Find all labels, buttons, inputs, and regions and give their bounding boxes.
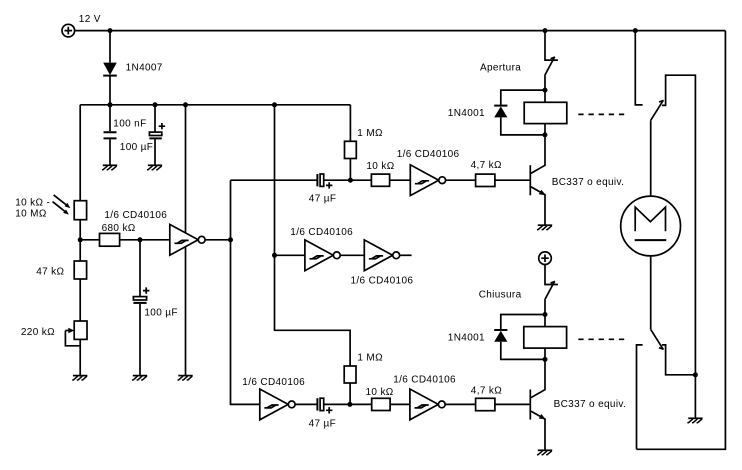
node A sensor bbox=[78, 237, 83, 242]
svg-text:1/6 CD40106: 1/6 CD40106 bbox=[351, 275, 414, 286]
ground under C2 bbox=[147, 165, 162, 170]
svg-text:10 kΩ -: 10 kΩ - bbox=[15, 197, 50, 208]
wire inv6 output stub bbox=[400, 254, 412, 256]
node H relay2 bottom bbox=[543, 357, 548, 362]
wire diode branch upper bbox=[501, 90, 545, 105]
ground right rail bbox=[687, 418, 702, 423]
wire switch1 to node E bbox=[544, 76, 546, 91]
svg-text:100 µF: 100 µF bbox=[120, 142, 153, 153]
resistor R5 1M upper bbox=[345, 141, 357, 158]
wire inv5 out to inv6 bbox=[340, 254, 364, 256]
LDR arrow 2 bbox=[53, 202, 69, 215]
wire D2 to node F bbox=[501, 117, 545, 134]
node B cap C3 bbox=[138, 237, 143, 242]
ground under C3 bbox=[132, 376, 147, 381]
wire node B down to C3 bbox=[139, 240, 141, 297]
resistor R4 680k bbox=[100, 233, 120, 246]
resistor R2 47k bbox=[74, 261, 86, 279]
svg-text:1/6 CD40106: 1/6 CD40106 bbox=[242, 377, 305, 388]
ground drop1 bbox=[178, 376, 193, 381]
wire diode to filter bus bbox=[109, 76, 111, 105]
resistor R6 10k upper bbox=[371, 174, 389, 186]
wire drop2 to 1M pullup lower bbox=[275, 105, 351, 366]
svg-text:10 MΩ: 10 MΩ bbox=[15, 209, 47, 220]
wire changeover lower contact B bbox=[662, 345, 696, 375]
terminal + Chiusura bbox=[539, 252, 552, 265]
wire pot to ground bbox=[79, 339, 81, 375]
wire K1 to node F bbox=[544, 124, 546, 135]
node ground rail bbox=[693, 372, 698, 377]
wire motor bottom to blade lower bbox=[650, 256, 652, 330]
svg-text:4,7 kΩ: 4,7 kΩ bbox=[471, 386, 502, 397]
wire R6 to INV2 bbox=[390, 179, 411, 181]
wire node D to R6 bbox=[350, 179, 371, 181]
wire node A to R2 bbox=[79, 240, 81, 261]
svg-text:1N4007: 1N4007 bbox=[126, 62, 163, 73]
capacitor C1 100 nF bbox=[104, 105, 117, 165]
svg-text:BC337 o equiv.: BC337 o equiv. bbox=[552, 177, 625, 188]
wire top bus bbox=[75, 30, 726, 32]
terminal +12V bbox=[62, 24, 75, 37]
wire node inv5 input bbox=[275, 254, 305, 256]
wire node E to relay K1 bbox=[544, 90, 546, 102]
op-amp U1F inverter 1/6 CD40106 bbox=[410, 389, 445, 420]
resistor R10 4.7k lower bbox=[476, 398, 495, 410]
wire node C riser bbox=[231, 180, 260, 404]
svg-text:1/6 CD40106: 1/6 CD40106 bbox=[290, 227, 353, 238]
switch blade changeover lower bbox=[651, 329, 664, 349]
wire diode branch lower bbox=[501, 315, 545, 330]
node bus-C2 bbox=[153, 102, 158, 107]
wire left drop to LDR bbox=[79, 105, 81, 201]
wire R5 to node D bbox=[349, 159, 351, 181]
svg-text:1N4001: 1N4001 bbox=[448, 108, 485, 119]
node G relay2 top bbox=[543, 312, 548, 317]
capacitor C4 47 uF bbox=[317, 174, 350, 189]
op-amp U1D inverter 1/6 CD40106 unused pair out bbox=[364, 240, 399, 271]
wire right rail bbox=[637, 31, 726, 450]
svg-text:4,7 kΩ: 4,7 kΩ bbox=[471, 160, 502, 171]
resistor R8 1M lower bbox=[344, 366, 356, 383]
switch Apertura blade bbox=[545, 57, 555, 75]
node F relay1 bottom bbox=[543, 132, 548, 137]
diode D2 1N4001 bbox=[494, 106, 507, 118]
wire K2 to node H bbox=[544, 348, 546, 359]
wire node A to R4 bbox=[80, 239, 99, 241]
transistor Q2 BC337 bbox=[530, 359, 546, 449]
wire changeover upper contact B bbox=[662, 75, 696, 375]
wire LDR to node A bbox=[79, 220, 81, 240]
op-amp U1A inverter 1/6 CD40106 bbox=[170, 224, 205, 255]
svg-text:BC337 o equiv.: BC337 o equiv. bbox=[554, 399, 627, 410]
wire switch2 to node G bbox=[544, 300, 546, 315]
switch blade changeover upper bbox=[651, 100, 664, 120]
svg-text:680 kΩ: 680 kΩ bbox=[102, 223, 136, 234]
motor M1 bbox=[621, 196, 681, 256]
node E relay1 top bbox=[543, 88, 548, 93]
ground under C1 bbox=[102, 165, 117, 170]
wire INV2 out to R7 bbox=[446, 179, 476, 181]
transistor Q1 BC337 bbox=[530, 135, 546, 225]
capacitor C2 100 uF bbox=[149, 105, 165, 165]
svg-text:1/6 CD40106: 1/6 CD40106 bbox=[104, 210, 167, 221]
wire INV1 out to node C bbox=[205, 239, 230, 241]
wire R7 to Q1 base bbox=[495, 179, 530, 181]
wire bus to switch1 bbox=[545, 31, 558, 60]
svg-text:1 MΩ: 1 MΩ bbox=[357, 128, 383, 139]
relay K1 coil bbox=[524, 102, 567, 123]
wire ground rail bbox=[694, 375, 696, 418]
wire bus corner into R5 bbox=[349, 105, 351, 142]
wire R8 to node I bbox=[349, 383, 351, 404]
mechanical link lower dashed bbox=[578, 338, 624, 340]
svg-text:100 nF: 100 nF bbox=[113, 119, 146, 130]
node inv5 input bbox=[272, 253, 277, 258]
diode D1 1N4007 bbox=[103, 63, 117, 76]
node C inv1 output bbox=[228, 237, 233, 242]
node D timing upper bbox=[348, 178, 353, 183]
wire 12V to diode bbox=[109, 31, 111, 63]
svg-text:Chiusura: Chiusura bbox=[479, 290, 522, 301]
resistor R7 4.7k upper bbox=[476, 174, 495, 186]
switch Chiusura blade bbox=[545, 282, 555, 300]
wire R2 to pot bbox=[79, 279, 81, 321]
diode D3 1N4001 bbox=[494, 330, 507, 342]
relay K2 coil bbox=[524, 327, 567, 349]
LDR R1 bbox=[74, 201, 86, 220]
op-amp U1C inverter 1/6 CD40106 unused pair in bbox=[305, 240, 340, 271]
wire drop1 to ground bbox=[185, 105, 187, 375]
wire changeover upper contact A bbox=[635, 31, 642, 105]
wire INV4 out to R10 bbox=[445, 403, 475, 405]
svg-text:1/6 CD40106: 1/6 CD40106 bbox=[393, 375, 456, 386]
wire R10 to Q2 base bbox=[495, 403, 530, 405]
svg-text:10 kΩ: 10 kΩ bbox=[366, 161, 394, 172]
node I timing lower bbox=[347, 402, 352, 407]
potentiometer R3 220k bbox=[65, 321, 87, 346]
LDR arrow 1 bbox=[54, 195, 71, 208]
capacitor C5 47 uF bbox=[317, 398, 371, 413]
svg-text:1N4001: 1N4001 bbox=[448, 333, 485, 344]
svg-text:47 µF: 47 µF bbox=[309, 418, 337, 429]
wire blade to motor top bbox=[650, 120, 652, 196]
wire R9 to INV4 bbox=[390, 403, 410, 405]
svg-text:47 kΩ: 47 kΩ bbox=[36, 267, 64, 278]
svg-text:100 µF: 100 µF bbox=[144, 308, 177, 319]
capacitor C3 100 uF bbox=[133, 287, 149, 375]
op-amp U1E inverter 1/6 CD40106 bbox=[260, 389, 295, 420]
node top bus / diode bbox=[108, 28, 113, 33]
node top bus relay1 bbox=[543, 28, 548, 33]
svg-text:47 µF: 47 µF bbox=[309, 194, 337, 205]
wire D3 to node H bbox=[501, 342, 545, 360]
ground under Q1 bbox=[537, 225, 552, 230]
mechanical link upper dashed bbox=[578, 113, 624, 115]
svg-text:Apertura: Apertura bbox=[480, 62, 521, 73]
svg-text:12 V: 12 V bbox=[79, 14, 101, 25]
ground under Q2 bbox=[537, 450, 552, 455]
wire node G to relay K2 bbox=[544, 315, 546, 327]
node bus-drop2 bbox=[272, 102, 277, 107]
wire R4 to INV1 bbox=[120, 239, 170, 241]
svg-text:1 MΩ: 1 MΩ bbox=[357, 353, 383, 364]
node top bus changeover bbox=[633, 28, 638, 33]
ground under pot bbox=[72, 376, 87, 381]
node bus-drop1 bbox=[183, 102, 188, 107]
svg-text:1/6 CD40106: 1/6 CD40106 bbox=[397, 149, 460, 160]
svg-text:10 kΩ: 10 kΩ bbox=[366, 387, 394, 398]
wire INV3 out to C5 bbox=[295, 403, 317, 405]
resistor R9 10k lower bbox=[372, 398, 390, 410]
wire filter bus bbox=[80, 104, 350, 106]
wire terminal to switch2 bbox=[545, 265, 558, 285]
wire node C to C4 bbox=[231, 179, 317, 181]
wire changeover lower contact A bbox=[637, 345, 643, 449]
svg-text:220 kΩ: 220 kΩ bbox=[21, 327, 55, 338]
op-amp U1B inverter 1/6 CD40106 bbox=[410, 165, 445, 196]
node bus-diode bbox=[108, 102, 113, 107]
